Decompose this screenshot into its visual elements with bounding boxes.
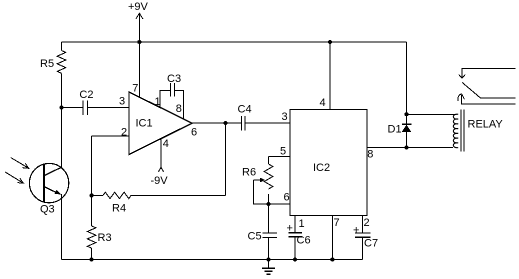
relay coil L1 (453, 114, 458, 147)
wire: bottom ground rail (62, 259, 363, 261)
wire: C2 left lead (62, 107, 84, 109)
wire: relay coil top wire (407, 113, 457, 115)
capacitor C4 (240, 116, 242, 131)
ground (268, 260, 270, 268)
svg-text:C6: C6 (297, 235, 311, 247)
wire: +9V stem down to rail (138, 13, 140, 42)
wire: C5 top stem (268, 204, 270, 233)
wire: IC2 pin 2 stem (362, 216, 364, 234)
svg-text:R6: R6 (242, 167, 256, 179)
node: R6/C5/pin6 junction dot (267, 202, 271, 206)
wire: IC2 pin 5 (269, 156, 291, 158)
relay contact: up curved arrow (458, 94, 465, 101)
capacitor C5 (263, 232, 278, 234)
svg-text:C7: C7 (364, 238, 378, 250)
svg-text:1: 1 (155, 96, 161, 108)
svg-text:7: 7 (132, 83, 138, 95)
svg-text:1: 1 (299, 218, 305, 230)
svg-text:6: 6 (284, 192, 290, 204)
svg-text:Q3: Q3 (40, 204, 55, 216)
svg-text:6: 6 (191, 127, 197, 139)
wire: IC2 pin 6 (269, 203, 291, 205)
Q3 base bar (43, 164, 45, 202)
diode D1 (402, 123, 412, 125)
wire: R3 lower lead (91, 248, 93, 260)
light arrow 1 (11, 158, 28, 168)
relay contact: down arrowhead (459, 74, 466, 78)
svg-text:R3: R3 (98, 232, 112, 244)
wire: C3 bracket to pin 8 (175, 90, 184, 118)
wire: Q3 emitter down lead to rail (61, 194, 63, 260)
svg-text:4: 4 (320, 97, 326, 109)
resistor R5 (57, 51, 66, 74)
wire: IC2 pin 8 to relay coil (367, 147, 453, 149)
wire: C2 to IC1 pin 3 (87, 107, 129, 109)
svg-text:RELAY: RELAY (468, 119, 504, 131)
svg-text:4: 4 (163, 138, 169, 150)
+9V supply arrow (136, 13, 143, 19)
node: C2 branch junction dot (60, 106, 64, 110)
wire: IC1 output pin 6 to C4 (192, 122, 241, 124)
svg-text:3: 3 (119, 96, 125, 108)
svg-text:IC2: IC2 (313, 162, 330, 174)
svg-text:D1: D1 (388, 124, 402, 136)
wire: pin 2 vertical down to R4/R3 junction (91, 136, 93, 196)
op-amp U1 (IC1 triangle) (129, 92, 192, 155)
svg-text:-9V: -9V (151, 175, 169, 187)
wire: D1 bottom lead (406, 132, 408, 148)
svg-text:3: 3 (282, 111, 288, 123)
svg-text:R4: R4 (112, 203, 126, 215)
wire: IC1 pin 2 (92, 135, 129, 137)
capacitor C6 (288, 232, 302, 234)
svg-text:C3: C3 (167, 73, 181, 85)
wire: C6 bottom stem (294, 237, 296, 260)
R6 wiper arrow (254, 179, 261, 181)
svg-text:C2: C2 (79, 89, 93, 101)
wire: rail down to D1 (406, 42, 408, 124)
capacitor C7 (355, 232, 371, 234)
relay contact: armature arm (462, 82, 516, 98)
wire: IC2 pin 1 stem (294, 216, 296, 233)
node: feedback junction dot (224, 121, 228, 125)
node: D1/relay top junction dot (405, 112, 409, 116)
wire: C5 bottom stem (268, 237, 270, 259)
wire: IC1 pin 4 stem (160, 139, 162, 169)
-9V supply arrow (159, 167, 164, 172)
potentiometer R6 (264, 164, 273, 189)
wire: IC1 pin 7 stem (138, 42, 140, 97)
wire: C4 to IC2 pin 3 (245, 122, 290, 124)
svg-text:R5: R5 (40, 58, 54, 70)
svg-text:2: 2 (364, 217, 370, 229)
node: IC2 pin 4 rail junction dot (328, 40, 332, 44)
IC U2 (IC2 box) (290, 109, 367, 215)
wire: R5 upper lead from rail (61, 42, 63, 51)
node: R3 bottom rail junction dot (90, 258, 94, 262)
svg-text:7: 7 (334, 217, 340, 229)
wire: R3 upper lead (91, 195, 93, 226)
wire: C3 bracket from pin 1 (160, 90, 170, 107)
relay contact: lower fixed line with riser (461, 95, 515, 104)
svg-text:+: + (287, 223, 293, 235)
resistor R4 (103, 192, 131, 198)
wire: top +9V rail (62, 41, 407, 43)
svg-text:8: 8 (367, 149, 373, 161)
node: R4/R3/pin2 junction dot (90, 193, 94, 197)
wire: R6 bottom lead (268, 194, 270, 204)
wire: IC2 pin 7 stem (331, 216, 333, 260)
light arrow 2 (5, 172, 22, 183)
Q3 collector diagonal (44, 167, 62, 176)
wire: R6 top lead (268, 157, 270, 164)
relay contact: top fixed line (462, 69, 516, 78)
transistor Q3 (phototransistor) (29, 163, 68, 202)
wire: Q3 collector up lead (61, 160, 63, 168)
wire: R4 right lead (131, 194, 226, 196)
wire: R5 lower lead down to Q3 collector (61, 73, 63, 167)
node: ground junction dot (267, 258, 271, 262)
svg-text:5: 5 (280, 146, 286, 158)
relay core lines (460, 110, 462, 152)
wire: IC2 pin 4 stem (329, 42, 331, 109)
node: rail / pin7 junction dot (137, 40, 141, 44)
svg-text:C5: C5 (248, 231, 262, 243)
Q3 emitter diagonal with arrow (44, 187, 57, 193)
capacitor C2 (82, 101, 84, 116)
wire: feedback vertical (225, 123, 227, 195)
wire: C7 bottom stem (362, 237, 364, 259)
wire: R4 left lead (92, 194, 103, 196)
wire: wiper return (254, 180, 269, 204)
svg-text:2: 2 (121, 127, 127, 139)
svg-text:+: + (353, 224, 359, 236)
svg-text:+9V: +9V (128, 1, 149, 13)
capacitor C3 (169, 83, 171, 97)
node: pin 7 rail junction dot (330, 258, 334, 262)
svg-text:8: 8 (176, 103, 182, 115)
svg-text:C4: C4 (238, 104, 252, 116)
node: D1/pin8 junction dot (405, 146, 409, 150)
node: C6 rail junction dot (293, 258, 297, 262)
svg-text:IC1: IC1 (136, 118, 153, 130)
resistor R3 (87, 226, 96, 248)
